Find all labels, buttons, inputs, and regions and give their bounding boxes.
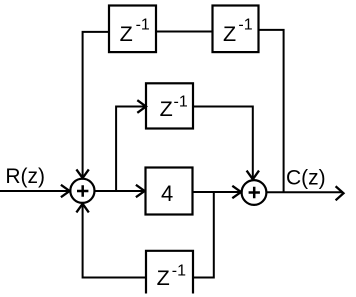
wire delay U3 output right and down into summer S2 top [193, 107, 253, 179]
wire delay U2 to delay U1 [156, 31, 213, 33]
delay block U1 [109, 6, 156, 53]
svg-text:-1: -1 [238, 16, 252, 33]
svg-text:C(z): C(z) [286, 167, 326, 190]
wire branch from node A up into delay U3 [116, 107, 144, 192]
delay block U3 [146, 83, 193, 128]
summer S2 [242, 180, 267, 205]
wire delay U1 output left and down into summer S1 top [83, 32, 109, 178]
svg-text:-1: -1 [174, 94, 188, 111]
arrowhead into summer S1 left [61, 185, 70, 197]
wire R(z) input to summer S1 [0, 190, 69, 192]
delay block U5 (bottom, open bottom edge) [146, 251, 193, 294]
arrowhead into summer S2 left [232, 186, 241, 198]
wire branch from node B down into delay U5 right side [193, 192, 214, 278]
arrowhead into gain block [136, 185, 145, 197]
arrowhead into delay U3 [137, 100, 146, 113]
delay block U2 [213, 6, 259, 53]
arrowhead output C(z) [336, 186, 344, 200]
plus sign in S2 [249, 187, 260, 198]
wire summer S1 output to gain block [94, 190, 144, 192]
svg-text:Z: Z [160, 97, 173, 121]
arrowhead into summer S1 top [76, 169, 88, 178]
svg-text:R(z): R(z) [5, 165, 45, 188]
svg-text:Z: Z [157, 266, 170, 290]
svg-text:Z: Z [223, 22, 236, 46]
summer S1 [70, 179, 94, 203]
gain block value 4 [146, 168, 193, 215]
svg-text:-1: -1 [136, 16, 150, 33]
svg-text:-1: -1 [172, 262, 186, 279]
arrowhead into summer S2 top [247, 171, 259, 180]
arrowhead into summer S1 bottom [76, 204, 88, 213]
wire gain block output to summer S2 [193, 191, 240, 193]
plus sign in S1 [77, 185, 88, 196]
svg-text:Z: Z [120, 22, 133, 46]
wire feedback from output node up into delay U2 right side [259, 30, 284, 192]
svg-text:4: 4 [161, 181, 173, 206]
wire summer S2 output C(z) [266, 191, 343, 193]
wire delay U5 output left and up into summer S1 bottom [83, 205, 146, 278]
